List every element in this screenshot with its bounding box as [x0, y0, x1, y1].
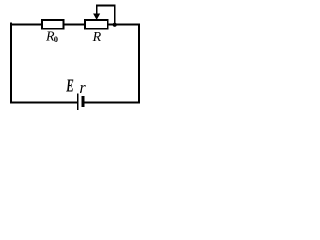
rheostat wiper arrowhead [93, 14, 100, 20]
battery long plate [77, 93, 79, 110]
wire top right segment [107, 24, 140, 26]
wire top left segment [10, 24, 42, 26]
wire top middle segment [63, 24, 85, 26]
rheostat R box [85, 20, 108, 29]
svg-text:E: E [66, 77, 74, 96]
wire bottom left segment [10, 102, 78, 104]
battery label r stem tail [80, 91, 83, 93]
battery short plate [82, 96, 85, 107]
svg-text:0: 0 [54, 34, 58, 44]
wire right vertical [138, 24, 140, 104]
resistor R0 box [42, 20, 64, 29]
wire left vertical [10, 22, 12, 103]
junction dot [113, 23, 117, 27]
svg-text:r: r [80, 79, 87, 96]
rheostat wiper right vertical wire [114, 5, 116, 25]
rheostat wiper arrow stem [96, 5, 98, 14]
wire bottom right segment [85, 102, 140, 104]
svg-text:R: R [92, 30, 102, 45]
rheostat wiper top wire [96, 5, 115, 7]
